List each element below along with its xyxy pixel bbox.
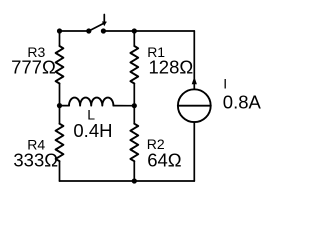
svg-text:I: I: [223, 76, 227, 92]
wire inductor right lead: [113, 105, 134, 107]
wire inductor left lead: [60, 105, 70, 107]
wire top-right segment: [103, 30, 194, 32]
wire top-left segment: [60, 30, 89, 32]
current source I1 direction arrow: [192, 77, 197, 85]
switch SW1 actuation arrow: [102, 15, 107, 27]
node switch left contact: [86, 28, 91, 33]
svg-text:777Ω: 777Ω: [11, 57, 56, 78]
resistor R1: [130, 46, 138, 84]
current source I1 circle: [178, 89, 211, 122]
wire right vertical top: [193, 31, 195, 89]
wire right vertical bottom: [193, 122, 195, 181]
svg-text:64Ω: 64Ω: [147, 149, 182, 170]
wire bottom: [60, 180, 195, 182]
node middle mid: [132, 103, 137, 108]
resistor R4: [56, 124, 64, 162]
current source I1 bar: [178, 105, 211, 107]
resistor R2: [130, 124, 138, 162]
node bottom middle junction: [132, 178, 137, 183]
resistor R3: [56, 46, 64, 84]
wire left vertical bottom lead: [59, 161, 61, 181]
wire left mid lead: [59, 84, 61, 124]
wire middle mid lead: [133, 84, 135, 124]
wire left vertical top lead: [59, 31, 61, 46]
svg-text:0.8A: 0.8A: [223, 91, 262, 112]
svg-text:0.4H: 0.4H: [73, 120, 112, 141]
wire middle vertical bottom lead: [133, 161, 135, 181]
inductor L1: [69, 98, 113, 106]
node left mid: [57, 103, 62, 108]
node switch right contact: [101, 28, 106, 33]
wire middle vertical top lead: [133, 31, 135, 46]
node top-left corner: [57, 28, 62, 33]
switch SW1 blade: [89, 22, 106, 31]
svg-text:333Ω: 333Ω: [13, 149, 58, 170]
svg-text:128Ω: 128Ω: [149, 57, 194, 78]
node top middle junction: [132, 28, 137, 33]
